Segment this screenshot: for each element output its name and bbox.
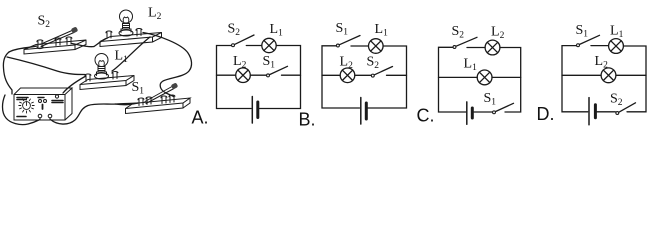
wire: C left loop	[439, 47, 466, 112]
wire: middle branch left segment	[439, 76, 478, 78]
pictorial: power-supply panel markings	[17, 95, 63, 117]
lamp L1 (middle branch)	[477, 70, 492, 85]
wire: L1 left post down over power-supply top	[63, 77, 85, 94]
pictorial: lamp L1 base platform	[80, 76, 134, 90]
pictorial: S1 terminal posts	[138, 95, 175, 105]
wire: L2 to S1 pivot	[250, 74, 266, 76]
wire: B left loop	[322, 46, 360, 108]
wire: from left side across to L1 left post	[7, 57, 85, 75]
wire: A right loop (top-right, right edge, bottom-right)	[260, 46, 301, 109]
pictorial: L1 bulb	[95, 54, 109, 80]
wire: power-supply right terminal to S1 left post	[51, 103, 139, 124]
switch S2 (open, bottom wire)	[616, 103, 636, 115]
pictorial: L2 terminal posts	[106, 29, 142, 39]
wire: loop around box to power-supply left terminal	[3, 95, 41, 125]
wire: B right loop	[368, 46, 407, 108]
lamp L1 (top branch)	[262, 38, 276, 52]
wire: L2 right post down right side to S1 right post	[143, 33, 192, 97]
switch S1 (open, middle branch)	[267, 66, 288, 77]
lamp L2 (middle branch)	[236, 68, 251, 83]
pictorial: knife switch S2 base	[24, 40, 86, 54]
wire: S2 fixed contact to L1	[246, 45, 261, 47]
wire: L1 right post up to L2 right post	[112, 37, 150, 71]
wire: D right loop	[624, 46, 647, 112]
switch S1 (open, top branch)	[577, 35, 600, 46]
wire: C right loop	[500, 48, 521, 113]
switch S1 (open, bottom wire)	[493, 103, 514, 113]
pictorial: power-supply output terminals	[38, 114, 52, 120]
wire: S2 fixed contact to L2	[467, 47, 485, 49]
pictorial: S2 knife lever (open)	[40, 26, 78, 46]
wire: L2 to S2 pivot	[355, 74, 371, 76]
battery (bottom wire)	[467, 102, 473, 124]
pictorial: knife switch S1 base	[126, 98, 191, 114]
wire: middle branch right segment	[492, 76, 521, 78]
wire: S2 left post down the left side	[3, 52, 12, 94]
pictorial: S2 terminal posts	[37, 37, 72, 49]
pictorial: lamp L2 base platform	[100, 33, 162, 47]
wire: D left loop	[562, 46, 588, 112]
switch S2 (open, top branch)	[232, 35, 254, 47]
wire: S1 fixed contact to right edge	[282, 74, 301, 76]
wire: A left loop (top-left, left edge, bottom-left)	[217, 46, 252, 109]
wire: S1 left post toward left	[115, 103, 138, 105]
wire: battery to S1 pivot	[474, 111, 492, 113]
wire: into L2 left post from below	[94, 39, 106, 47]
wire: S2 fixed contact to right edge	[387, 74, 407, 76]
wire: middle branch left segment	[562, 74, 601, 76]
switch S2 (open, middle branch)	[371, 67, 392, 78]
wire: middle branch right segment	[616, 74, 646, 76]
wire: S2 left post toward lower left	[9, 46, 37, 52]
wire: middle branch left segment	[217, 74, 236, 76]
svg-text:A.: A.	[192, 108, 209, 128]
battery (bottom wire)	[589, 98, 595, 125]
pictorial: S1 knife lever (open)	[145, 82, 178, 103]
pictorial: L1 terminal posts	[85, 72, 118, 82]
lamp L2 (middle branch)	[340, 68, 355, 83]
pictorial: power-supply knob dial	[19, 98, 34, 113]
pictorial: L2 bulb	[119, 10, 133, 36]
lamp L1 (top branch)	[369, 39, 384, 54]
switch S1 (open, top branch)	[336, 36, 360, 47]
svg-text:D.: D.	[537, 104, 555, 124]
pictorial: battery power-supply box	[14, 88, 72, 120]
switch S2 (open, top branch)	[453, 37, 477, 48]
svg-text:B.: B.	[299, 110, 316, 130]
wire: S1 fixed contact to L1	[591, 45, 608, 47]
wire: S2 right post to lamp L2 left post	[72, 44, 94, 47]
lamp L2 (top branch)	[485, 40, 500, 55]
battery (bottom wire)	[252, 97, 257, 124]
wire: middle branch left segment	[322, 74, 340, 76]
battery (bottom wire)	[361, 98, 367, 125]
wire: S1 fixed contact to L1	[351, 45, 368, 47]
wire: battery to S2 pivot	[597, 111, 615, 113]
svg-text:C.: C.	[417, 106, 435, 126]
lamp L1 (top branch)	[609, 39, 624, 54]
lamp L2 (middle branch)	[601, 68, 616, 83]
